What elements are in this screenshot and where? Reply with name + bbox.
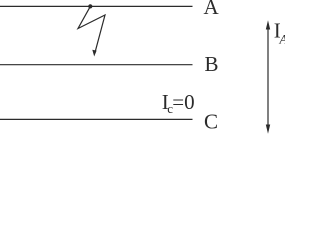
label A xyxy=(204,0,220,19)
lightning discharge arrow from A toward B xyxy=(78,6,105,56)
wire C xyxy=(0,118,193,120)
label B xyxy=(205,52,219,76)
label C xyxy=(204,110,218,134)
svg-text:A: A xyxy=(204,0,220,19)
wire B xyxy=(0,64,193,66)
current direction double arrow xyxy=(266,20,270,134)
svg-text:A: A xyxy=(279,32,286,47)
svg-text:C: C xyxy=(204,110,218,134)
label I_A xyxy=(274,19,288,47)
label Ic=0 xyxy=(162,90,195,116)
node on wire A xyxy=(88,4,92,8)
svg-text:B: B xyxy=(205,52,219,76)
wire A xyxy=(0,5,193,7)
svg-text:=0: =0 xyxy=(172,90,194,114)
